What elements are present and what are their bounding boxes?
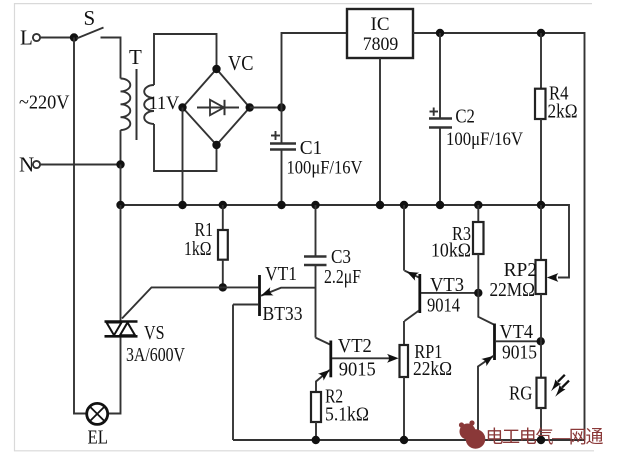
svg-text:9015: 9015: [502, 342, 537, 364]
wire triac to lamp: [108, 338, 121, 414]
node bridge bottom: [212, 141, 220, 149]
node bus-IC-ground junction: [376, 201, 384, 209]
svg-text:2kΩ: 2kΩ: [548, 101, 578, 123]
node R4 top: [537, 29, 545, 37]
terminal L: [20, 26, 40, 50]
bus wire (mid rail): [121, 205, 570, 278]
transistor VT1 BT33: [223, 263, 316, 325]
svg-text:C2: C2: [455, 106, 475, 128]
op-amp IC 7809 regulator: [347, 9, 413, 58]
capacitor C1: [270, 108, 363, 206]
node bus-triac junction: [116, 201, 124, 209]
bottom rail wire: [233, 439, 585, 441]
watermark logo: [459, 420, 485, 448]
potentiometer RP1: [400, 321, 453, 440]
svg-text:RP2: RP2: [504, 259, 537, 281]
svg-text:1kΩ: 1kΩ: [184, 238, 212, 260]
node rail-RP1 junction: [400, 436, 408, 444]
node bridge right: [246, 103, 254, 111]
transformer core: [136, 69, 138, 140]
node bridge left: [178, 103, 186, 111]
svg-text:C3: C3: [331, 246, 351, 268]
wire primary bottom to N junction: [120, 130, 122, 164]
svg-text:5.1kΩ: 5.1kΩ: [325, 404, 369, 426]
node rail-VT4-emitter junction: [474, 436, 482, 444]
wire node up and to IC input: [282, 33, 348, 108]
svg-text:电工电气—网通: 电工电气—网通: [486, 427, 604, 447]
node N junction: [116, 160, 124, 168]
resistor R1: [184, 205, 228, 287]
lamp EL: [87, 403, 108, 448]
node rail-R2 junction: [312, 436, 320, 444]
svg-text:7809: 7809: [363, 34, 399, 55]
node gate junction: [219, 283, 227, 291]
transistor VT4 9015: [478, 293, 541, 440]
transistor VT2 9015: [316, 335, 376, 392]
svg-text:11V: 11V: [149, 93, 180, 114]
svg-text:VT4: VT4: [500, 321, 534, 343]
node VT4 base junction: [537, 337, 545, 345]
svg-text:100μF/16V: 100μF/16V: [287, 158, 363, 179]
terminal N: [19, 153, 40, 177]
node bus-R4-RP2 junction: [537, 201, 545, 209]
wire IC output rail right: [413, 33, 585, 440]
wire gate junction to triac gate: [122, 287, 223, 318]
transistor VT3 9014: [404, 205, 478, 321]
svg-text:22MΩ: 22MΩ: [490, 279, 536, 301]
node C1 top junction: [277, 103, 285, 111]
diode inside bridge: [197, 100, 239, 115]
resistor R4: [535, 33, 578, 205]
node bus-C2 junction: [436, 201, 444, 209]
node bridge top: [212, 65, 220, 73]
svg-text:IC: IC: [371, 14, 390, 35]
light arrows into RG: [551, 375, 569, 397]
svg-text:2.2μF: 2.2μF: [324, 266, 361, 288]
svg-text:L: L: [20, 26, 33, 50]
transformer secondary winding: [144, 85, 179, 124]
wire bridge right vertex to C1 node: [250, 107, 282, 109]
node bus-R3 junction: [474, 201, 482, 209]
photoresistor RG: [509, 341, 546, 440]
wire L down to lamp: [74, 38, 87, 414]
wire N junction down to bus: [120, 165, 122, 206]
svg-text:VC: VC: [228, 51, 254, 75]
node VT3 base junction: [474, 289, 482, 297]
node L junction: [70, 33, 78, 41]
svg-text:S: S: [84, 6, 96, 30]
wire N to junction: [41, 164, 121, 166]
svg-text:~220V: ~220V: [19, 92, 70, 114]
resistor R2: [311, 386, 369, 441]
svg-text:10kΩ: 10kΩ: [431, 240, 471, 262]
svg-text:EL: EL: [88, 427, 109, 449]
wire secondary bottom loop to bridge bottom: [154, 124, 217, 171]
svg-text:VS: VS: [144, 322, 165, 344]
switch S: [77, 6, 104, 39]
svg-text:VT3: VT3: [430, 274, 464, 296]
svg-text:N: N: [19, 153, 34, 177]
svg-text:T: T: [129, 45, 142, 69]
wire bridge left vertex down to bus: [182, 108, 184, 206]
bridge rectifier VC diamond: [183, 51, 254, 145]
node C2 top: [436, 29, 444, 37]
resistor R3: [431, 205, 484, 293]
svg-text:9014: 9014: [427, 295, 460, 317]
wire secondary top loop to bridge top: [154, 34, 217, 85]
wire L to junction: [41, 37, 75, 39]
node rail-RG junction: [537, 436, 545, 444]
node bus-C3 junction: [311, 201, 319, 209]
wire switch to transformer: [101, 38, 121, 79]
wire VT1 base1 down to bottom rail: [232, 305, 234, 441]
transistor VS triac: [105, 322, 186, 367]
svg-text:22kΩ: 22kΩ: [413, 358, 452, 380]
wire VT2 base to RP1 wiper arrow: [332, 354, 399, 363]
svg-text:RG: RG: [509, 383, 533, 405]
svg-text:C1: C1: [300, 137, 323, 159]
node bus-VT3-emitter junction: [400, 201, 408, 209]
capacitor C2: [429, 33, 523, 205]
svg-text:BT33: BT33: [263, 303, 303, 325]
node bus-R1 junction: [219, 201, 227, 209]
svg-text:VT2: VT2: [338, 335, 372, 357]
node bus-bridge-negative junction: [178, 201, 186, 209]
wire IC ground pin to bus: [379, 58, 381, 205]
potentiometer RP2: [490, 205, 559, 341]
svg-text:9015: 9015: [339, 359, 376, 381]
capacitor C3: [304, 205, 361, 338]
svg-text:VT1: VT1: [265, 263, 297, 285]
svg-text:100μF/16V: 100μF/16V: [446, 129, 523, 150]
transformer T primary winding: [121, 45, 143, 130]
node bus-C1 junction: [277, 201, 285, 209]
wire bus down to triac: [120, 205, 122, 321]
svg-text:3A/600V: 3A/600V: [126, 344, 185, 366]
